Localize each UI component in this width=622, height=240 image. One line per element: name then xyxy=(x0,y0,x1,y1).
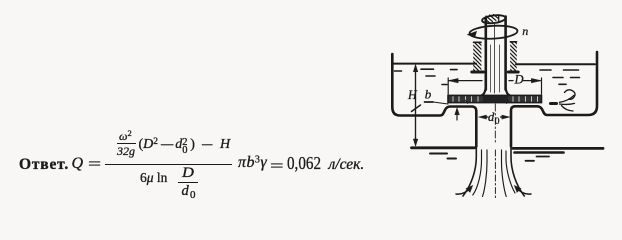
D extension tick left xyxy=(447,78,449,94)
shaft hub flare left xyxy=(482,89,486,95)
denominator mini fraction D over d0 : D xyxy=(182,166,193,181)
jet bottom right curved arrow xyxy=(517,189,531,195)
d with stacked 2 over 0, close paren xyxy=(175,138,195,155)
numerator mini fraction omega^2 over 32g xyxy=(119,129,132,142)
main fraction bar xyxy=(105,164,232,166)
seat corner tick right xyxy=(507,100,509,103)
H xyxy=(220,138,230,152)
thick dash left of swirl xyxy=(551,102,557,105)
jet left edge below floor xyxy=(463,148,476,196)
floor line right xyxy=(513,147,603,150)
word Ответ. xyxy=(19,157,69,173)
center line through tube xyxy=(494,104,496,142)
rotation arrowhead xyxy=(467,31,477,37)
bearing block bottom bar left xyxy=(472,71,484,74)
numerator (D^2 xyxy=(139,138,159,152)
disk light streaks xyxy=(453,97,538,102)
minus 1 xyxy=(161,138,175,152)
equals xyxy=(270,159,279,175)
floor line left xyxy=(412,146,475,149)
H dimension line with arrows xyxy=(412,65,421,146)
water dashes left xyxy=(395,69,458,84)
slanted tick on H line xyxy=(412,105,421,112)
jet inner lines xyxy=(473,150,515,198)
water dashes below floor right xyxy=(515,153,564,161)
water dashes below floor left xyxy=(430,154,456,159)
hatch inside shaft top xyxy=(485,15,499,23)
water surface line right xyxy=(516,63,595,65)
mini bar D/d0 xyxy=(178,182,199,183)
svg-text:b: b xyxy=(425,87,432,102)
water dashes right xyxy=(540,70,580,84)
0,062 xyxy=(287,154,328,172)
D dimension line xyxy=(448,78,541,94)
rotation arrow ellipse xyxy=(469,25,518,40)
shaft top ellipse xyxy=(482,14,506,24)
units l/sek xyxy=(329,157,365,173)
water surface line left xyxy=(393,63,476,65)
tank left wall and bottom with step up to seat xyxy=(392,54,476,147)
bearing block top edge right xyxy=(510,41,516,43)
denominator 6mu ln xyxy=(140,171,167,185)
small arrow pointing up at gap b (under seat) xyxy=(455,108,460,120)
shaft right edge xyxy=(504,17,507,90)
shaft left edge xyxy=(484,18,487,90)
swirl flow into gap (right side) xyxy=(560,90,576,111)
tank right wall and bottom with step up to seat xyxy=(511,52,597,147)
b leader line xyxy=(425,101,434,103)
svg-text:H: H xyxy=(407,88,418,102)
disk body dark bar xyxy=(448,95,542,102)
disk center hub section darkest xyxy=(483,96,508,102)
D extension tick right xyxy=(541,78,543,94)
seat corner tick left xyxy=(466,100,468,103)
shaft shading lines xyxy=(491,45,500,92)
d0 dimension arrows xyxy=(479,115,510,119)
bearing block top edge left xyxy=(474,41,482,43)
32g xyxy=(117,145,135,157)
jet right edge below floor xyxy=(511,148,524,196)
jet bottom left curved arrow xyxy=(456,189,470,195)
pi b^3 gamma xyxy=(238,155,267,171)
minus 2 xyxy=(202,138,216,152)
d0 xyxy=(182,184,196,202)
svg-text:D: D xyxy=(514,73,524,87)
shaft center line xyxy=(494,23,496,93)
bearing block bottom bar right xyxy=(508,71,518,74)
mini bar omega/32g xyxy=(117,143,137,144)
svg-text:n: n xyxy=(522,24,528,38)
Q = xyxy=(72,156,84,172)
cut edge inside shaft top xyxy=(498,15,500,23)
shaft hub flare right xyxy=(506,89,510,95)
